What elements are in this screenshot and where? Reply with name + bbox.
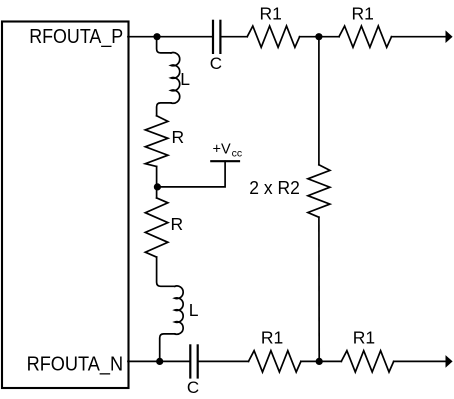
- Vcc terminal bar: [211, 160, 239, 162]
- node D: bottom-left junction dot: [156, 358, 163, 365]
- wire: node B down to resistor 2xR2: [318, 37, 320, 165]
- wire: RFOUTA_P to capacitor C: [128, 36, 212, 38]
- wire: R1 to node B: [300, 36, 339, 38]
- resistor R (bottom) vertical zigzag: [145, 198, 168, 257]
- wire: inductor L to resistor R (top): [157, 103, 171, 116]
- svg-text:2 x R2: 2 x R2: [249, 178, 299, 198]
- resistor R1 (top-right) zigzag: [339, 26, 392, 47]
- arrow: bottom output: [446, 355, 453, 368]
- svg-text:cc: cc: [232, 148, 243, 160]
- svg-text:R1: R1: [352, 4, 374, 24]
- svg-text:C: C: [210, 54, 222, 73]
- capacitor C (top) plates: [212, 21, 214, 53]
- wire: resistor 2xR2 down to node E: [318, 217, 320, 361]
- wire: resistor R to inductor L (bottom): [157, 257, 175, 286]
- resistor 2xR2 vertical zigzag: [308, 165, 330, 217]
- wire: center node to Vcc stem: [157, 161, 225, 187]
- wire: center node down to resistor R (bottom): [156, 187, 158, 198]
- inductor L (bottom) coil: [175, 286, 183, 334]
- node B: top-right junction dot: [315, 33, 322, 40]
- wire: capacitor C (bottom) to resistor R1 (bottom-left): [199, 360, 249, 362]
- wire: R1 bottom-right to output arrow: [394, 360, 446, 362]
- svg-text:RFOUTA_N: RFOUTA_N: [27, 352, 124, 375]
- node A: top-left junction dot: [153, 33, 160, 40]
- svg-text:L: L: [180, 69, 190, 89]
- svg-text:R1: R1: [261, 328, 283, 348]
- svg-text:R1: R1: [353, 328, 375, 348]
- wire: capacitor C to resistor R1 (top-left): [221, 36, 247, 38]
- svg-text:L: L: [189, 300, 199, 320]
- arrow: top output: [446, 30, 453, 43]
- resistor R (top) vertical zigzag: [145, 116, 168, 167]
- inductor L (top) coil: [171, 53, 180, 104]
- wire: RFOUTA_N to capacitor C (bottom): [128, 360, 190, 362]
- wire: resistor R to center node: [156, 167, 158, 187]
- node C: center bias junction dot: [154, 183, 161, 190]
- wire: R1 top-right to output arrow: [392, 36, 447, 38]
- capacitor C (bottom) plates: [189, 345, 191, 377]
- resistor R1 (bottom-right) zigzag: [341, 351, 393, 372]
- wire: inductor L (bottom) to node D: [160, 334, 175, 362]
- wire: R1 bottom-left to node E: [301, 360, 341, 362]
- node E: bottom-right junction dot: [316, 358, 323, 365]
- svg-text:R1: R1: [260, 4, 282, 24]
- svg-text:+V: +V: [213, 142, 231, 158]
- svg-text:R: R: [171, 214, 184, 234]
- resistor R1 (top-left) zigzag: [247, 26, 299, 47]
- wire: node A down to inductor L (top): [157, 37, 171, 53]
- resistor R1 (bottom-left) zigzag: [249, 351, 301, 372]
- svg-text:C: C: [187, 378, 199, 397]
- IC block U1: [2, 22, 129, 389]
- svg-text:R: R: [172, 127, 185, 147]
- svg-text:RFOUTA_P: RFOUTA_P: [29, 25, 123, 48]
